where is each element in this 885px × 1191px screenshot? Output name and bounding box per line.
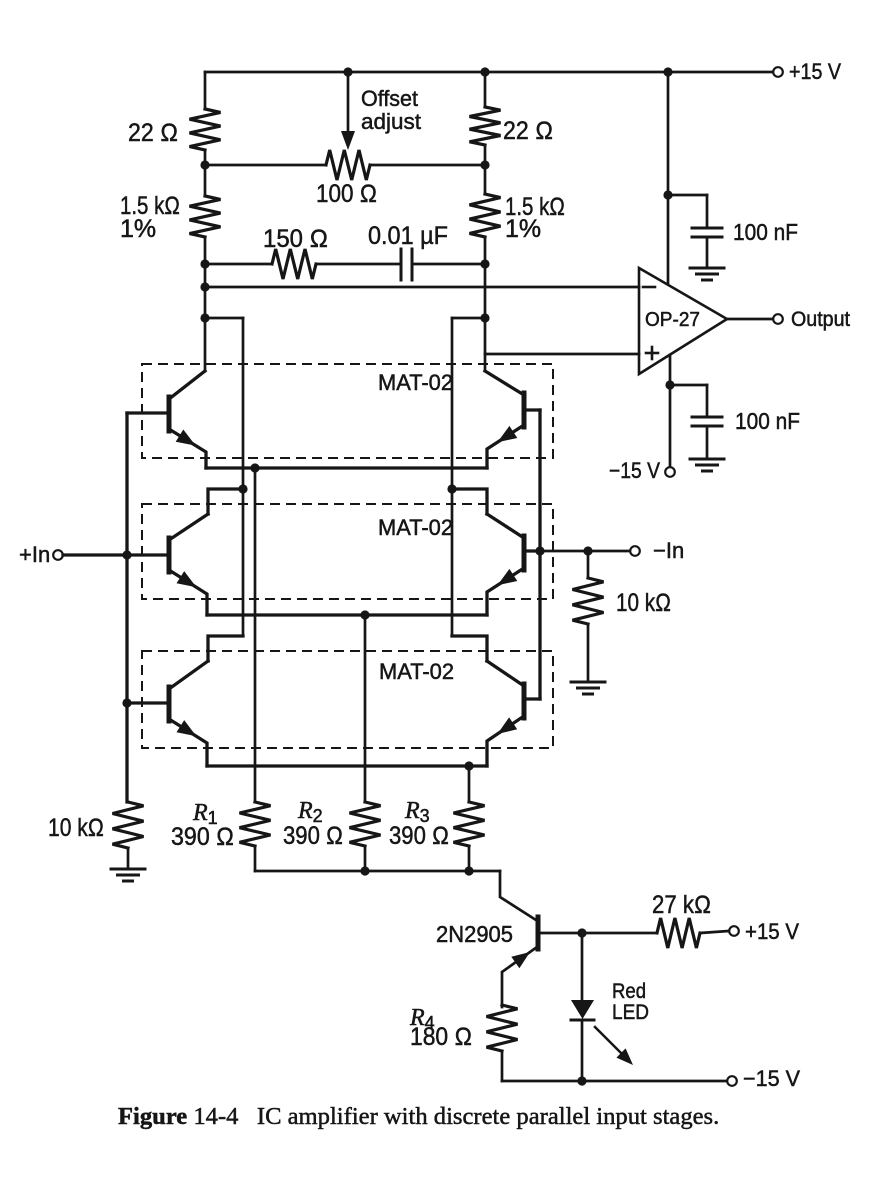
label +In — [19, 542, 50, 567]
node LED bottom — [577, 1076, 586, 1085]
wire Q4 emitter — [502, 947, 537, 1007]
label R2 390 — [283, 822, 343, 850]
wire offset wiper — [347, 72, 350, 133]
svg-text:Red: Red — [612, 980, 646, 1003]
node emitter bus 1 — [250, 463, 259, 472]
MAT-02 package 2 box — [142, 504, 553, 599]
wire left collector jog — [205, 317, 243, 320]
svg-text:10 kΩ: 10 kΩ — [48, 814, 104, 842]
resistor 22ohm right — [470, 107, 501, 145]
transistor Q1b bar — [522, 393, 527, 427]
label 10k left — [48, 814, 104, 842]
label MAT-02 1 — [378, 370, 453, 395]
resistor R4 180 — [487, 1005, 518, 1051]
node 150 row right — [480, 259, 489, 268]
wire pot row left — [205, 164, 326, 167]
wire right branch mid — [484, 145, 487, 194]
svg-text:MAT-02: MAT-02 — [378, 515, 453, 540]
wire R3 bottom — [468, 846, 471, 871]
wire emitter2 drop — [364, 615, 367, 802]
label LED — [612, 1001, 649, 1024]
wire Q2a base — [127, 553, 169, 556]
svg-text:+15 V: +15 V — [745, 919, 799, 944]
label MAT-02 2 — [378, 515, 453, 540]
node pot left — [200, 160, 209, 169]
arrow Q4 emitter — [511, 952, 530, 968]
node bus R2 — [360, 866, 369, 875]
wire Q1b base — [524, 408, 540, 411]
op-amp OP-27 — [639, 268, 727, 374]
svg-text:1%: 1% — [505, 215, 541, 243]
arrow offset wiper — [341, 131, 355, 150]
wire +In base rail — [125, 413, 128, 802]
transistor Q3a bar — [167, 687, 172, 721]
wire Q2b collector jog — [452, 489, 487, 514]
label 100nF top — [733, 219, 798, 245]
wire LED bottom — [581, 1020, 584, 1081]
svg-text:180 Ω: 180 Ω — [410, 1023, 472, 1051]
label R2 — [297, 798, 323, 826]
wire -In lead — [540, 550, 630, 553]
diode LED — [571, 1000, 594, 1020]
wire Q2a emitter — [169, 570, 207, 615]
terminal -In — [630, 546, 640, 556]
svg-text:−In: −In — [653, 538, 684, 563]
wire 150ohm row left — [205, 263, 272, 266]
wire 10k right bottom — [587, 624, 590, 682]
node pot right — [480, 160, 489, 169]
capacitor 100nF bottom — [670, 385, 722, 459]
label R4 — [409, 1005, 435, 1033]
wire pot row right — [370, 164, 485, 167]
terminal +In — [53, 550, 63, 560]
node top-rail op-amp supply — [663, 67, 672, 76]
arrow Q2a emitter — [177, 571, 197, 587]
wire Q3a emitter — [169, 719, 207, 766]
resistor 27k — [657, 918, 700, 948]
label 1pct right — [505, 215, 541, 243]
svg-text:MAT-02: MAT-02 — [379, 659, 454, 684]
wire Q1a collector — [169, 371, 205, 399]
svg-text:MAT-02: MAT-02 — [378, 370, 453, 395]
node Q4 base — [577, 928, 586, 937]
MAT-02 package 3 box — [142, 651, 553, 748]
label +15 bottom — [745, 919, 799, 944]
wire emitter bus 3 — [207, 764, 487, 767]
node -In 10k tap — [583, 546, 592, 555]
resistor 1.5k right — [470, 194, 501, 237]
label adjust — [361, 109, 421, 134]
terminal output — [773, 314, 783, 324]
ground 100nF bottom — [690, 459, 724, 471]
svg-text:1%: 1% — [120, 215, 156, 243]
wire 150ohm to cap — [316, 263, 401, 266]
terminal -15 bottom — [727, 1076, 737, 1086]
node left bus T — [238, 484, 247, 493]
wire Q2b emitter — [487, 568, 524, 615]
wire LED top — [581, 933, 584, 1000]
wire emitter1 drop — [254, 468, 257, 802]
capacitor 100nF top — [668, 195, 722, 268]
resistor 10k left — [113, 802, 144, 848]
node top-rail offset tap — [343, 67, 352, 76]
label R3 — [404, 798, 430, 826]
wire +15V top rail — [205, 71, 773, 74]
svg-text:10 kΩ: 10 kΩ — [616, 589, 671, 617]
node top-rail right branch — [480, 67, 489, 76]
label 1.5k left — [120, 192, 180, 220]
wire left branch mid — [204, 150, 207, 196]
wire Q3b collector — [487, 661, 524, 686]
wire emitter bus 1 — [206, 466, 487, 469]
svg-text:390 Ω: 390 Ω — [389, 822, 449, 850]
node left collector jog — [200, 313, 209, 322]
transistor Q2b bar — [522, 536, 527, 570]
label Red — [612, 980, 646, 1003]
svg-text:−15 V: −15 V — [743, 1066, 800, 1091]
label R3 390 — [389, 822, 449, 850]
wire Q2a collector — [169, 514, 208, 540]
label 22ohm left — [128, 119, 178, 147]
wire +In lead — [63, 553, 127, 556]
resistor 22ohm left — [190, 109, 221, 150]
wire output — [727, 318, 773, 321]
wire Q3a collector — [169, 661, 208, 689]
arrow Q2b emitter — [497, 569, 517, 585]
wire bottom bus — [255, 870, 500, 873]
wire bus to Q4 collector — [500, 871, 536, 920]
label 100nF bottom — [735, 408, 800, 434]
transistor Q4 2N2905 bar — [536, 917, 541, 949]
wire 27k to term — [700, 931, 729, 933]
label op-amp plus — [646, 347, 658, 359]
terminal +15 bottom — [729, 926, 739, 936]
label 150ohm — [263, 225, 328, 253]
resistor 10k right — [573, 578, 604, 624]
wire Q3a base — [127, 701, 169, 704]
wire -15V rail — [502, 1080, 726, 1083]
label 2N2905 — [436, 921, 513, 947]
wire R4 bottom — [501, 1051, 504, 1081]
wire R2 bottom — [364, 846, 367, 871]
node inv left — [200, 282, 209, 291]
wire inverting input — [205, 286, 639, 289]
ground 10k right — [571, 682, 605, 694]
svg-text:OP-27: OP-27 — [645, 309, 700, 331]
node -In junction — [535, 546, 544, 555]
svg-text:22 Ω: 22 Ω — [128, 119, 178, 147]
svg-text:390 Ω: 390 Ω — [171, 823, 234, 851]
label 0.01uF — [368, 222, 448, 250]
wire left branch upper — [204, 72, 207, 109]
label R1 — [192, 800, 218, 828]
wire op-amp +supply — [667, 72, 670, 283]
label R4 180 — [410, 1023, 472, 1051]
node +supply cap tap — [663, 190, 672, 199]
label Offset — [361, 86, 418, 111]
wire emitter bus 2 — [207, 613, 487, 616]
svg-text:Offset: Offset — [361, 86, 418, 111]
svg-text:+15 V: +15 V — [789, 59, 841, 84]
resistor R3 390 — [454, 802, 485, 846]
svg-text:Figure 14-4 IC amplifier wit: Figure 14-4 IC amplifier with discrete p… — [118, 1103, 719, 1130]
label 100ohm — [316, 180, 377, 208]
resistor R2 390 — [350, 802, 381, 846]
wire op-amp -supply — [669, 355, 672, 467]
terminal -15V opamp — [665, 467, 675, 477]
wire left branch lower — [204, 237, 207, 371]
resistor 100ohm pot — [326, 150, 370, 180]
svg-text:100 nF: 100 nF — [735, 408, 800, 434]
svg-text:390 Ω: 390 Ω — [283, 822, 343, 850]
node 150 row left — [200, 259, 209, 268]
wire Q3b emitter — [487, 716, 524, 766]
wire Q1a base — [127, 411, 169, 414]
wire R1 bottom — [254, 846, 257, 871]
label MAT-02 3 — [379, 659, 454, 684]
wire Q4 base — [538, 932, 582, 935]
transistor Q2a bar — [167, 538, 172, 572]
wire Q2b base — [524, 549, 540, 552]
node base rail box3 — [122, 698, 131, 707]
svg-text:100 nF: 100 nF — [733, 219, 798, 245]
label Output — [791, 308, 850, 331]
wire Q3b base — [524, 697, 540, 700]
wire Q1b collector — [485, 371, 524, 395]
wire right branch lower — [484, 237, 487, 371]
node -supply cap tap — [665, 380, 674, 389]
caption figure — [118, 1103, 719, 1130]
svg-text:Output: Output — [791, 308, 850, 331]
svg-text:−15 V: −15 V — [609, 458, 660, 483]
wire cap to right — [412, 263, 485, 266]
svg-text:adjust: adjust — [361, 109, 421, 134]
wire -In base rail — [538, 410, 541, 699]
label 1.5k right — [505, 193, 565, 221]
wire right collector jog — [452, 317, 485, 320]
resistor R1 390 — [240, 802, 271, 846]
arrow LED emission — [595, 1027, 633, 1065]
label -15V opamp — [609, 458, 660, 483]
wire 10k right top — [587, 551, 590, 578]
label 27k — [652, 891, 711, 919]
label +15 V top — [789, 59, 841, 84]
wire Q1b emitter — [487, 425, 524, 468]
capacitor 0.01uF plate2 — [411, 249, 414, 280]
ground 10k left — [111, 869, 145, 881]
svg-text:100 Ω: 100 Ω — [316, 180, 377, 208]
label -In — [653, 538, 684, 563]
capacitor 0.01uF plate1 — [400, 249, 403, 280]
wire Q4 base to 27k — [582, 932, 657, 935]
wire left collector bus — [242, 318, 245, 636]
node right collector jog — [480, 313, 489, 322]
svg-text:+In: +In — [19, 542, 50, 567]
arrow Q3b emitter — [497, 717, 517, 734]
node right bus T — [447, 484, 456, 493]
svg-text:27 kΩ: 27 kΩ — [652, 891, 711, 919]
wire Q2a collector jog — [208, 489, 243, 514]
svg-text:150 Ω: 150 Ω — [263, 225, 328, 253]
resistor 1.5k left — [190, 196, 221, 237]
label 10k right — [616, 589, 671, 617]
node emitter bus 3 — [464, 761, 473, 770]
transistor Q1a bar — [167, 397, 172, 431]
node emitter bus 2 — [360, 610, 369, 619]
wire Q2b collector — [487, 514, 524, 538]
label op-amp minus — [643, 286, 655, 289]
resistor 150ohm — [272, 249, 316, 279]
svg-text:0.01 µF: 0.01 µF — [368, 222, 448, 250]
wire 10k left bottom — [127, 848, 130, 869]
label -15 bottom — [743, 1066, 800, 1091]
wire Q1a emitter — [169, 429, 206, 468]
transistor Q3b bar — [522, 684, 527, 718]
node +In junction — [122, 550, 131, 559]
wire Q3b collector jog — [452, 636, 487, 661]
label 22ohm right — [503, 117, 553, 145]
label R1 390 — [171, 823, 234, 851]
svg-text:2N2905: 2N2905 — [436, 921, 513, 947]
arrow Q1b emitter — [497, 426, 517, 442]
ground 100nF top — [690, 268, 724, 280]
arrow Q1a emitter — [176, 430, 196, 446]
label OP-27 — [645, 309, 700, 331]
svg-text:LED: LED — [612, 1001, 649, 1024]
terminal +15 V top — [773, 67, 783, 77]
MAT-02 package 1 box — [142, 364, 553, 458]
svg-text:22 Ω: 22 Ω — [503, 117, 553, 145]
label 1pct left — [120, 215, 156, 243]
wire right branch upper — [484, 72, 487, 107]
wire Q3a collector jog — [208, 636, 243, 661]
node bus R3 — [464, 866, 473, 875]
arrow Q3a emitter — [177, 720, 197, 736]
wire noninv input — [485, 353, 639, 356]
wire emitter3 drop — [468, 766, 471, 802]
wire right collector bus — [451, 318, 454, 636]
